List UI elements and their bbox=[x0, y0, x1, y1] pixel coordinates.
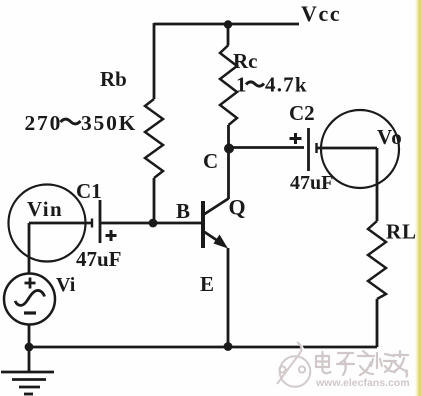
svg-text:47uF: 47uF bbox=[290, 172, 333, 194]
capacitor C2 right plate bbox=[315, 143, 317, 153]
wire: Rc top vertical bbox=[227, 24, 230, 45]
label Vi bbox=[56, 274, 76, 296]
source Vi circle bbox=[4, 274, 55, 325]
label Q bbox=[229, 195, 246, 220]
wire: C2 to output corner bbox=[317, 147, 378, 150]
svg-text:RL: RL bbox=[386, 220, 417, 244]
wire: Vcc top rail bbox=[154, 23, 299, 26]
wire: RL bottom vertical bbox=[376, 299, 379, 347]
transistor Q1 base bar bbox=[201, 201, 205, 248]
svg-text:C: C bbox=[203, 149, 218, 173]
svg-text:270: 270 bbox=[25, 111, 63, 135]
Vi sine symbol bbox=[15, 290, 45, 305]
label E bbox=[200, 272, 214, 296]
capacitor C1 right plate bbox=[99, 200, 102, 243]
value 270~350K bbox=[25, 111, 138, 135]
Vi minus sign bbox=[24, 311, 36, 314]
wire: emitter vertical bbox=[227, 248, 230, 347]
svg-text:Rb: Rb bbox=[100, 67, 127, 91]
junction: emitter node on bottom rail bbox=[224, 342, 233, 351]
wire: Rb bottom vertical bbox=[153, 178, 156, 223]
value 47uF (C2) bbox=[290, 172, 333, 194]
wire: Vin vertical down to Vi bbox=[28, 223, 31, 274]
label C1 bbox=[76, 179, 102, 203]
junction: collector node C bbox=[224, 144, 234, 154]
value 1~4.7k bbox=[236, 73, 308, 97]
label C2 bbox=[289, 101, 315, 125]
resistor Rc bbox=[220, 45, 237, 125]
label RL bbox=[386, 220, 417, 244]
wire: Vi to ground junction bbox=[28, 324, 31, 348]
resistor Rb bbox=[145, 99, 163, 178]
wire: output vertical to RL bbox=[376, 148, 379, 221]
watermark text 电子发烧友 (stylized strokes) bbox=[316, 351, 409, 378]
wire: Vin horizontal into C1 bbox=[29, 222, 92, 225]
svg-text:Q: Q bbox=[229, 195, 246, 220]
transistor Q1 collector lead bbox=[203, 199, 229, 216]
wire: base horizontal bbox=[100, 222, 203, 225]
ground symbol bbox=[1, 372, 54, 394]
wire: Rb top vertical bbox=[153, 23, 156, 99]
label Vin bbox=[27, 197, 63, 221]
wire: bottom rail bbox=[29, 346, 377, 349]
label Rc bbox=[233, 49, 258, 73]
wire: Rc bottom vertical bbox=[227, 125, 230, 147]
label Vcc bbox=[301, 1, 341, 26]
svg-text:Rc: Rc bbox=[233, 49, 258, 73]
capacitor C1 left plate bbox=[91, 219, 93, 228]
svg-text:350K: 350K bbox=[81, 111, 137, 135]
resistor RL bbox=[368, 221, 386, 299]
watermark logo (elecfans) bbox=[277, 342, 312, 388]
svg-text:4.7k: 4.7k bbox=[265, 73, 308, 97]
transistor Q1 emitter lead with arrow bbox=[203, 231, 228, 249]
svg-text:Vin: Vin bbox=[27, 197, 63, 221]
label Rb bbox=[100, 67, 127, 91]
C1 polarity + bbox=[106, 230, 117, 241]
wire: collector node to C2 bbox=[229, 146, 305, 149]
svg-text:1: 1 bbox=[236, 73, 247, 97]
svg-text:B: B bbox=[176, 199, 190, 223]
svg-text:C2: C2 bbox=[289, 101, 315, 125]
output circle Vo bbox=[321, 110, 399, 188]
svg-text:47uF: 47uF bbox=[76, 247, 122, 271]
svg-text:www.elecfans.com: www.elecfans.com bbox=[315, 377, 410, 389]
watermark url www.elecfans.com bbox=[315, 377, 411, 390]
wire: collector vertical bbox=[227, 148, 230, 200]
label B bbox=[176, 199, 190, 223]
value 47uF (C1) bbox=[76, 247, 122, 271]
capacitor C2 left plate bbox=[307, 128, 310, 171]
label Vo bbox=[377, 125, 403, 149]
junction: base node B bbox=[149, 219, 158, 228]
svg-text:Vi: Vi bbox=[56, 274, 76, 296]
svg-text:Vcc: Vcc bbox=[301, 1, 341, 26]
junction: top node (Vcc/Rc) bbox=[224, 20, 232, 28]
source circle Vin bbox=[9, 185, 86, 262]
C2 polarity + bbox=[290, 133, 302, 144]
wire: ground stem bbox=[28, 347, 31, 372]
Vi plus sign bbox=[25, 278, 36, 289]
svg-text:C1: C1 bbox=[76, 179, 102, 203]
junction: ground node left bbox=[25, 343, 34, 352]
decorative yellow page edge bbox=[415, 0, 422, 396]
svg-text:Vo: Vo bbox=[377, 125, 403, 149]
svg-text:E: E bbox=[200, 272, 214, 296]
label C (collector) bbox=[203, 149, 218, 173]
